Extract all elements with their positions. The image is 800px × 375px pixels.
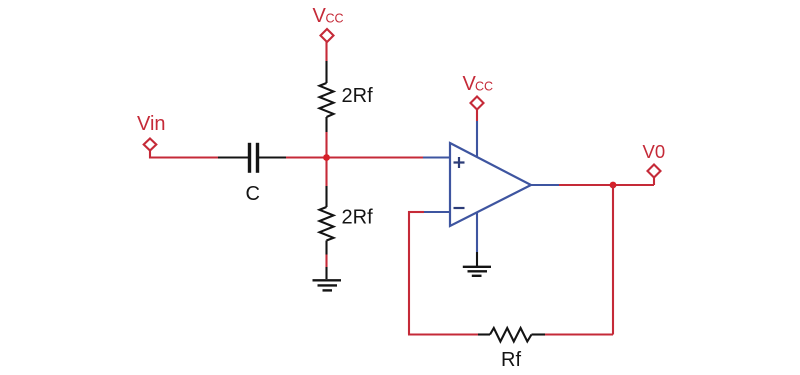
wire op-amp ground lead black xyxy=(476,252,478,266)
svg-text:V0: V0 xyxy=(643,141,666,162)
op-amp minus sign xyxy=(454,207,465,209)
ground symbol op-amp xyxy=(463,267,491,276)
junction node A dot xyxy=(323,154,330,161)
wire top branch red into node xyxy=(325,132,327,186)
wire op-amp inverting input blue xyxy=(424,211,450,213)
resistor Rf right lead xyxy=(532,333,546,335)
resistor 2Rf bottom zigzag xyxy=(320,207,334,241)
resistor 2Rf top lead lower xyxy=(325,117,327,132)
svg-text:Vin: Vin xyxy=(137,113,166,135)
svg-text:Rf: Rf xyxy=(501,349,521,371)
resistor Rf zigzag xyxy=(490,328,532,342)
junction output dot xyxy=(610,182,617,189)
wire Vcc stub red xyxy=(325,42,327,61)
svg-text:CC: CC xyxy=(326,12,344,26)
wire capacitor right lead xyxy=(259,156,286,158)
terminal Vcc diamond op-amp xyxy=(471,97,484,110)
wire Vcc op-amp blue xyxy=(476,121,478,157)
terminal V0 diamond xyxy=(648,165,661,178)
capacitor C plate 1 xyxy=(248,143,251,173)
wire op-amp output blue xyxy=(531,184,559,186)
wire Vcc op-amp stub red xyxy=(476,110,478,122)
resistor 2Rf bottom lead lower xyxy=(325,241,327,255)
wire V0 stub xyxy=(653,178,655,186)
terminal Vcc diamond top xyxy=(321,29,334,42)
svg-text:C: C xyxy=(246,183,260,205)
op-amp plus sign xyxy=(454,157,465,168)
svg-text:2Rf: 2Rf xyxy=(342,207,374,229)
op-amp U1 triangle xyxy=(450,143,531,226)
ground symbol left xyxy=(313,280,342,290)
wire output red xyxy=(559,184,654,186)
wire op-amp inverting input red xyxy=(408,211,424,213)
wire feedback left vertical xyxy=(408,211,410,335)
wire feedback bottom right red xyxy=(545,333,613,335)
svg-text:2Rf: 2Rf xyxy=(342,85,374,107)
wire feedback bottom left red xyxy=(408,333,478,335)
wire ground lead black xyxy=(325,267,327,279)
resistor 2Rf bottom lead upper xyxy=(325,186,327,207)
wire node A horizontal red xyxy=(286,156,423,158)
resistor Rf left lead xyxy=(478,333,490,335)
svg-text:V: V xyxy=(313,5,327,27)
svg-text:CC: CC xyxy=(475,80,493,94)
wire bottom branch red stub xyxy=(325,255,327,268)
resistor 2Rf top zigzag xyxy=(320,83,334,117)
wire feedback right vertical xyxy=(612,185,614,335)
wire op-amp noninverting input blue xyxy=(423,156,450,158)
terminal Vin diamond xyxy=(144,139,157,151)
wire op-amp bottom blue xyxy=(476,213,478,252)
wire capacitor left lead xyxy=(218,156,248,158)
resistor 2Rf top lead upper xyxy=(325,61,327,83)
wire Vin stub xyxy=(150,151,218,158)
capacitor C plate 2 xyxy=(256,143,259,173)
